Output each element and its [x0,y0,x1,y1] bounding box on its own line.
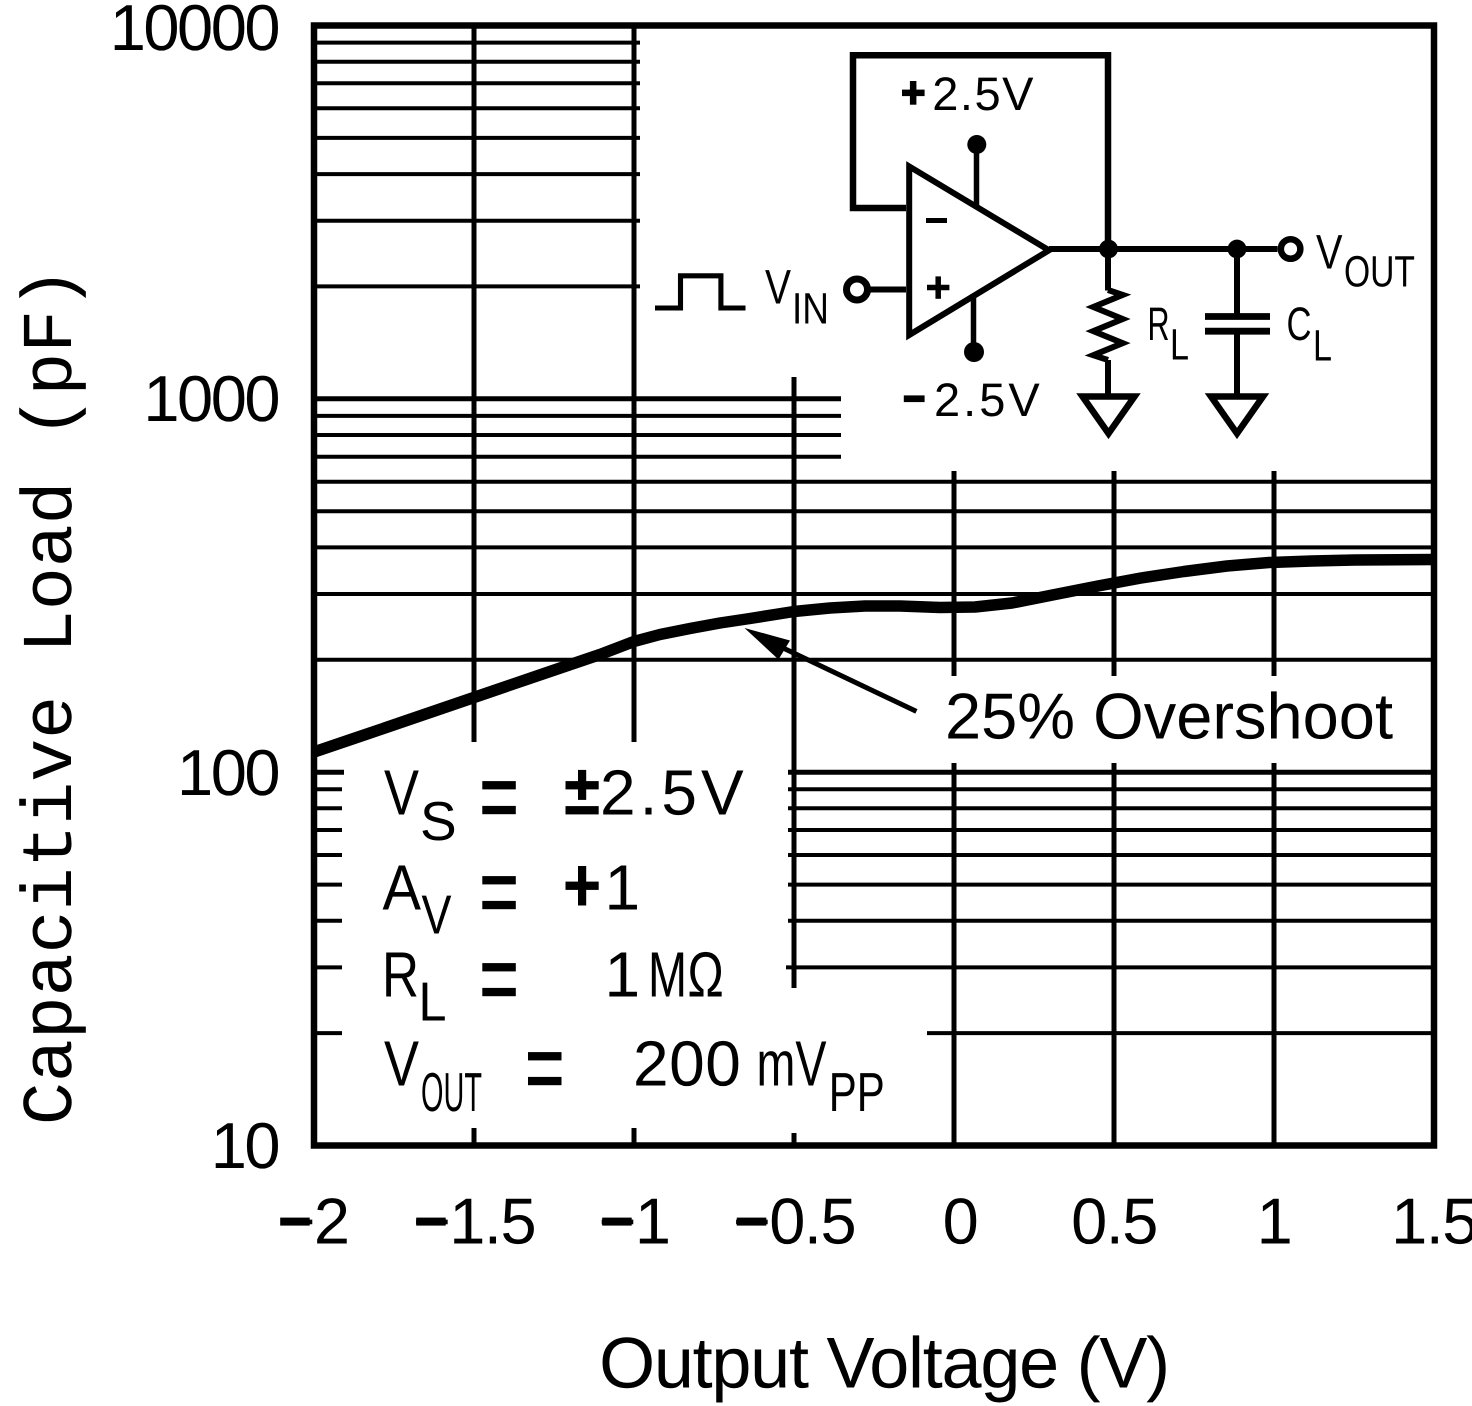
op-amp U1 [909,166,1049,335]
major gridline 1000 [311,396,841,401]
svg-text:PP: PP [829,1061,885,1123]
svg-text:Capacitive Load (pF): Capacitive Load (pF) [12,267,93,1125]
wire: node B down to capacitor CL [1234,249,1240,314]
output terminal VOUT (open circle) [1281,239,1301,259]
node B: CL junction dot [1228,240,1247,259]
label +2.5V [910,81,917,105]
label CL [1287,297,1312,350]
minor gridlines 200-600 [311,480,1434,484]
svg-text:L: L [1313,322,1332,371]
arrow from label to curve [781,647,916,711]
annotation VS = +/-2.5V [382,757,885,1124]
svg-text:0: 0 [943,1185,978,1258]
svg-text:R: R [1148,297,1170,350]
label VOUT [1316,226,1343,280]
svg-text:10: 10 [211,1109,279,1182]
svg-text:IN: IN [792,285,829,334]
wire: feedback loop from inverting input to output node [853,55,1108,246]
op-amp non-inverting input marker (+) [927,285,949,291]
svg-text:1: 1 [1257,1185,1292,1258]
minus sign overlays for x tick labels [280,1218,310,1226]
annotation VOUT = 200 mVpp [384,1028,419,1100]
svg-text:200: 200 [633,1028,741,1100]
svg-text:R: R [382,939,419,1011]
svg-text:Ω: Ω [688,939,724,1011]
svg-text:L: L [419,971,447,1033]
label RL [1148,297,1170,350]
resistor RL [1093,290,1122,360]
vertical gridlines [472,25,477,742]
node: +2.5V supply terminal dot [967,135,986,154]
op-amp inverting input marker (-) [926,218,947,223]
svg-text:0.5: 0.5 [1071,1185,1157,1258]
svg-text:V: V [384,1028,419,1100]
wire: positive supply to op-amp [974,145,980,207]
svg-text:1: 1 [605,939,641,1011]
svg-text:V: V [422,884,452,946]
annotation AV = +1 [383,852,422,924]
svg-text:M: M [648,939,687,1011]
svg-text:L: L [1170,321,1189,370]
ground (CL) [1211,397,1263,434]
wire: op-amp output to VOUT terminal [1049,246,1278,252]
svg-text:OUT: OUT [421,1061,482,1123]
svg-text:S: S [420,790,457,852]
svg-text:C: C [1287,297,1312,350]
label VIN [765,261,792,315]
input terminal (open circle) [847,279,868,300]
svg-text:1000: 1000 [143,362,278,435]
svg-text:2.5V: 2.5V [934,373,1043,426]
minor gridlines 700-900 [311,414,841,418]
wire: negative supply to op-amp [971,294,977,352]
svg-text:A: A [383,852,422,924]
annotation RL = 1 MOhm [382,939,419,1011]
svg-text:1: 1 [605,852,641,924]
svg-text:V: V [765,261,792,315]
svg-text:2.5V: 2.5V [600,757,748,829]
svg-text:Output Voltage (V): Output Voltage (V) [599,1323,1169,1403]
plot frame [314,26,1434,1146]
wire: capacitor CL to ground [1234,335,1240,394]
capacitor CL [1205,313,1270,320]
svg-text:10000: 10000 [110,0,279,64]
svg-text:mV: mV [757,1028,827,1100]
ground (RL) [1083,397,1135,434]
curve: capacitive load vs output voltage (25% overshoot) [314,560,1434,753]
svg-text:100: 100 [177,736,278,809]
label -2.5V [904,395,925,402]
svg-text:25% Overshoot: 25% Overshoot [945,680,1393,753]
minor gridlines decade 1000-10000 [311,284,640,288]
wire: input terminal to non-inverting input [867,287,906,293]
svg-text:V: V [1316,226,1343,280]
input pulse waveform symbol [655,276,746,308]
wire: resistor RL to ground [1105,360,1111,394]
node: -2.5V supply terminal dot [964,342,984,362]
minor gridlines 20-90 (left stubs + right parts) [311,787,342,791]
svg-text:OUT: OUT [1344,248,1415,297]
svg-text:1.5: 1.5 [1391,1185,1472,1258]
major gridline 100 (left stub + right part) [311,770,344,775]
svg-text:V: V [384,757,419,829]
node A: output / RL junction dot [1099,240,1118,259]
svg-text:2.5V: 2.5V [932,67,1035,120]
wire: node A down to resistor RL [1105,249,1111,291]
